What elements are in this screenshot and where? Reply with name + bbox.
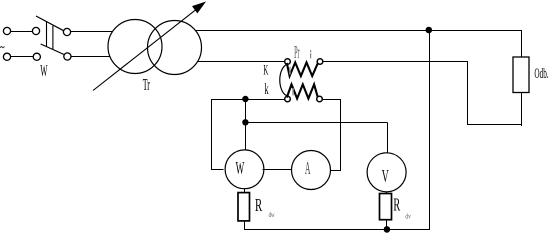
wire secondary l right [322, 99, 341, 101]
svg-text:dw: dw [269, 210, 275, 219]
svg-text:Odb.: Odb. [534, 66, 548, 82]
wire [331, 170, 341, 172]
voltmeter V [367, 153, 406, 192]
resistor Rdw [238, 193, 250, 221]
wire [11, 31, 33, 33]
wire W to A [263, 169, 292, 171]
wire [211, 169, 224, 171]
wire [11, 56, 34, 58]
autotransformer Tr circle 2 [148, 21, 202, 75]
switch W link bar 2 [52, 26, 54, 50]
CT Pr primary terminal K [285, 59, 291, 65]
CT coupling arc [280, 64, 287, 96]
label l primary [310, 50, 311, 52]
wire [467, 62, 469, 125]
CT Pr primary terminal L [317, 59, 323, 65]
label ~ source [0, 46, 4, 48]
wire [244, 189, 246, 193]
wire top main [196, 30, 522, 32]
source terminal bottom-mid [33, 53, 40, 60]
wire right vertical [429, 30, 431, 230]
svg-text:R: R [255, 195, 262, 215]
svg-text:k: k [265, 81, 269, 98]
wire lower main right [323, 61, 468, 63]
wattmeter W [225, 150, 264, 189]
node junction top [426, 27, 433, 34]
wire secondary k left [211, 99, 285, 101]
source terminal top-mid [32, 27, 39, 34]
wire [386, 220, 388, 230]
svg-text:K: K [263, 62, 268, 78]
svg-text:A: A [305, 158, 311, 178]
autotransformer arrow [93, 9, 197, 90]
wire [467, 124, 522, 126]
CT Pr secondary winding zigzag [287, 84, 318, 98]
wire [211, 99, 213, 170]
resistor Rdv [380, 194, 392, 220]
wire [521, 30, 523, 57]
switch W link bar 1 [46, 22, 48, 46]
wire [521, 93, 523, 127]
label l mark 2 [289, 67, 290, 75]
CT Pr primary winding zigzag [287, 63, 318, 77]
svg-text:Tr: Tr [143, 75, 150, 94]
node junction k wire [242, 96, 248, 102]
switch W blade bottom [41, 44, 64, 55]
svg-text:W: W [236, 158, 245, 178]
source terminal bottom-left [3, 53, 10, 60]
svg-text:R: R [393, 194, 400, 214]
label l mark 3 [292, 88, 293, 96]
wire [340, 99, 342, 171]
wire [71, 56, 110, 58]
wire [387, 122, 389, 153]
wire bottom main [244, 229, 430, 231]
source terminal top-left [3, 27, 10, 34]
svg-text:V: V [382, 166, 389, 186]
ammeter A [292, 151, 331, 190]
wire voltage to V [245, 122, 387, 124]
wire [244, 221, 246, 230]
wire [386, 192, 388, 194]
autotransformer Tr circle 1 [108, 20, 162, 74]
node junction voltage tap [242, 119, 248, 125]
switch W contact bottom [64, 53, 71, 60]
node junction bottom [384, 226, 391, 233]
svg-text:W: W [40, 61, 48, 80]
load Odb. [513, 57, 529, 93]
CT Pr secondary terminal k [285, 96, 291, 102]
svg-text:dv: dv [405, 213, 411, 221]
svg-text:Pr: Pr [294, 42, 300, 62]
wire lower main left [198, 61, 285, 63]
wire [71, 31, 112, 33]
switch W contact top [63, 28, 70, 35]
switch W blade top [36, 16, 64, 31]
CT Pr secondary terminal l [317, 96, 323, 102]
wire [245, 99, 247, 150]
